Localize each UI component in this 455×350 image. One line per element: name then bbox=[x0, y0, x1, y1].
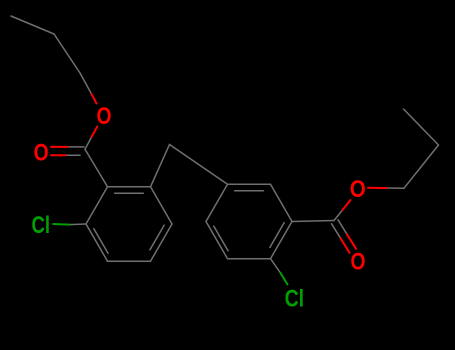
svg-text:Cl: Cl bbox=[32, 212, 51, 239]
svg-text:O: O bbox=[351, 248, 366, 275]
svg-text:Cl: Cl bbox=[285, 285, 305, 312]
svg-text:O: O bbox=[350, 176, 366, 203]
svg-text:O: O bbox=[34, 140, 49, 167]
svg-text:O: O bbox=[97, 103, 112, 130]
